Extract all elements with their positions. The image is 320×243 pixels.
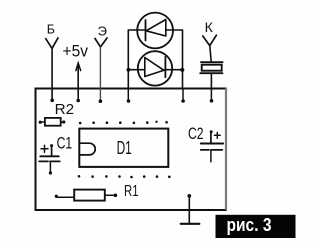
caption рис. 3	[216, 215, 296, 238]
node dot left LED stub	[127, 99, 131, 103]
wire right LED branch	[172, 30, 182, 89]
IC D1	[79, 129, 168, 167]
antenna symbol Э	[95, 38, 107, 47]
node dot +5v	[76, 99, 80, 103]
node dot C1 top lead	[50, 144, 53, 147]
node dot R2 right lead	[62, 120, 65, 123]
wire Э stem	[99, 47, 101, 100]
wire Б stem	[51, 48, 53, 99]
resistor R2	[40, 118, 63, 126]
svg-text:C2: C2	[188, 124, 204, 143]
node dot right LED stub	[181, 99, 185, 103]
node dot K stub	[210, 99, 214, 103]
wire K stem	[210, 46, 211, 62]
wire left LED stub into box	[127, 89, 129, 101]
IC D1 bottom pin dots	[78, 175, 171, 178]
node dot R2 left lead	[39, 121, 42, 124]
capacitor C2 plus sign	[214, 132, 220, 138]
wire right LED stub into box	[182, 89, 184, 101]
ground wire	[188, 196, 190, 224]
IC D1 top pin dots	[79, 121, 168, 125]
svg-text:К: К	[205, 19, 214, 35]
node dot R1 right lead	[114, 194, 118, 198]
svg-text:Э: Э	[98, 23, 107, 38]
wire left LED branch	[128, 30, 138, 89]
ground bar	[181, 223, 200, 225]
svg-text:R1: R1	[124, 183, 139, 200]
LED VD1 (upper, cathode left)	[137, 13, 173, 49]
capacitor C1	[39, 146, 60, 173]
svg-text:C1: C1	[57, 133, 73, 152]
resistor R1	[57, 190, 115, 201]
svg-text:Б: Б	[47, 22, 55, 36]
svg-text:D1: D1	[117, 138, 132, 158]
node dot C2 top lead	[210, 130, 213, 133]
capacitor C1 plus sign	[41, 145, 48, 152]
crystal BQ1	[200, 62, 222, 88]
node dot ground	[187, 194, 191, 198]
capacitor C2	[201, 132, 223, 162]
+5v arrow	[77, 63, 79, 99]
node dot R1 left lead	[55, 195, 58, 198]
node dot Э	[99, 99, 103, 103]
svg-text:R2: R2	[55, 101, 75, 118]
node dot right LED	[180, 68, 184, 72]
node dot C1 bottom lead	[49, 171, 52, 174]
antenna symbol Б	[46, 38, 58, 49]
module box A1	[36, 89, 227, 211]
wire K stub into box	[210, 89, 212, 101]
node dot left LED	[126, 68, 130, 72]
node dot Б	[50, 99, 54, 103]
svg-text:рис. 3: рис. 3	[227, 215, 272, 235]
LED VD2 (lower, cathode right)	[138, 51, 174, 85]
antenna symbol K	[203, 35, 217, 45]
svg-text:+5v: +5v	[63, 42, 89, 61]
